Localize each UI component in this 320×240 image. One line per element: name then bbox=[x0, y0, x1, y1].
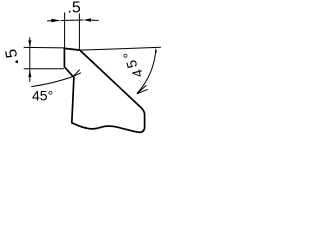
left dimension line with arrows outside bbox=[29, 37, 31, 81]
top dimension line with arrows outside bbox=[47, 20, 52, 22]
angular dimension arc bbox=[137, 52, 156, 93]
svg-text:45°: 45° bbox=[32, 87, 53, 103]
top dimension: extension lines bbox=[64, 12, 66, 47]
leader line for small 45-deg chamfer bbox=[31, 76, 73, 86]
svg-text:.5: .5 bbox=[67, 0, 80, 17]
left dimension: extension lines bbox=[24, 46, 64, 49]
part outline (visible thick lines): top edge, large 45-deg chamfer, right edge, bottom break line, left edge, small chamfer bbox=[64, 48, 144, 132]
thin extension of top surface to the right (angular dimension reference line) bbox=[80, 47, 161, 50]
